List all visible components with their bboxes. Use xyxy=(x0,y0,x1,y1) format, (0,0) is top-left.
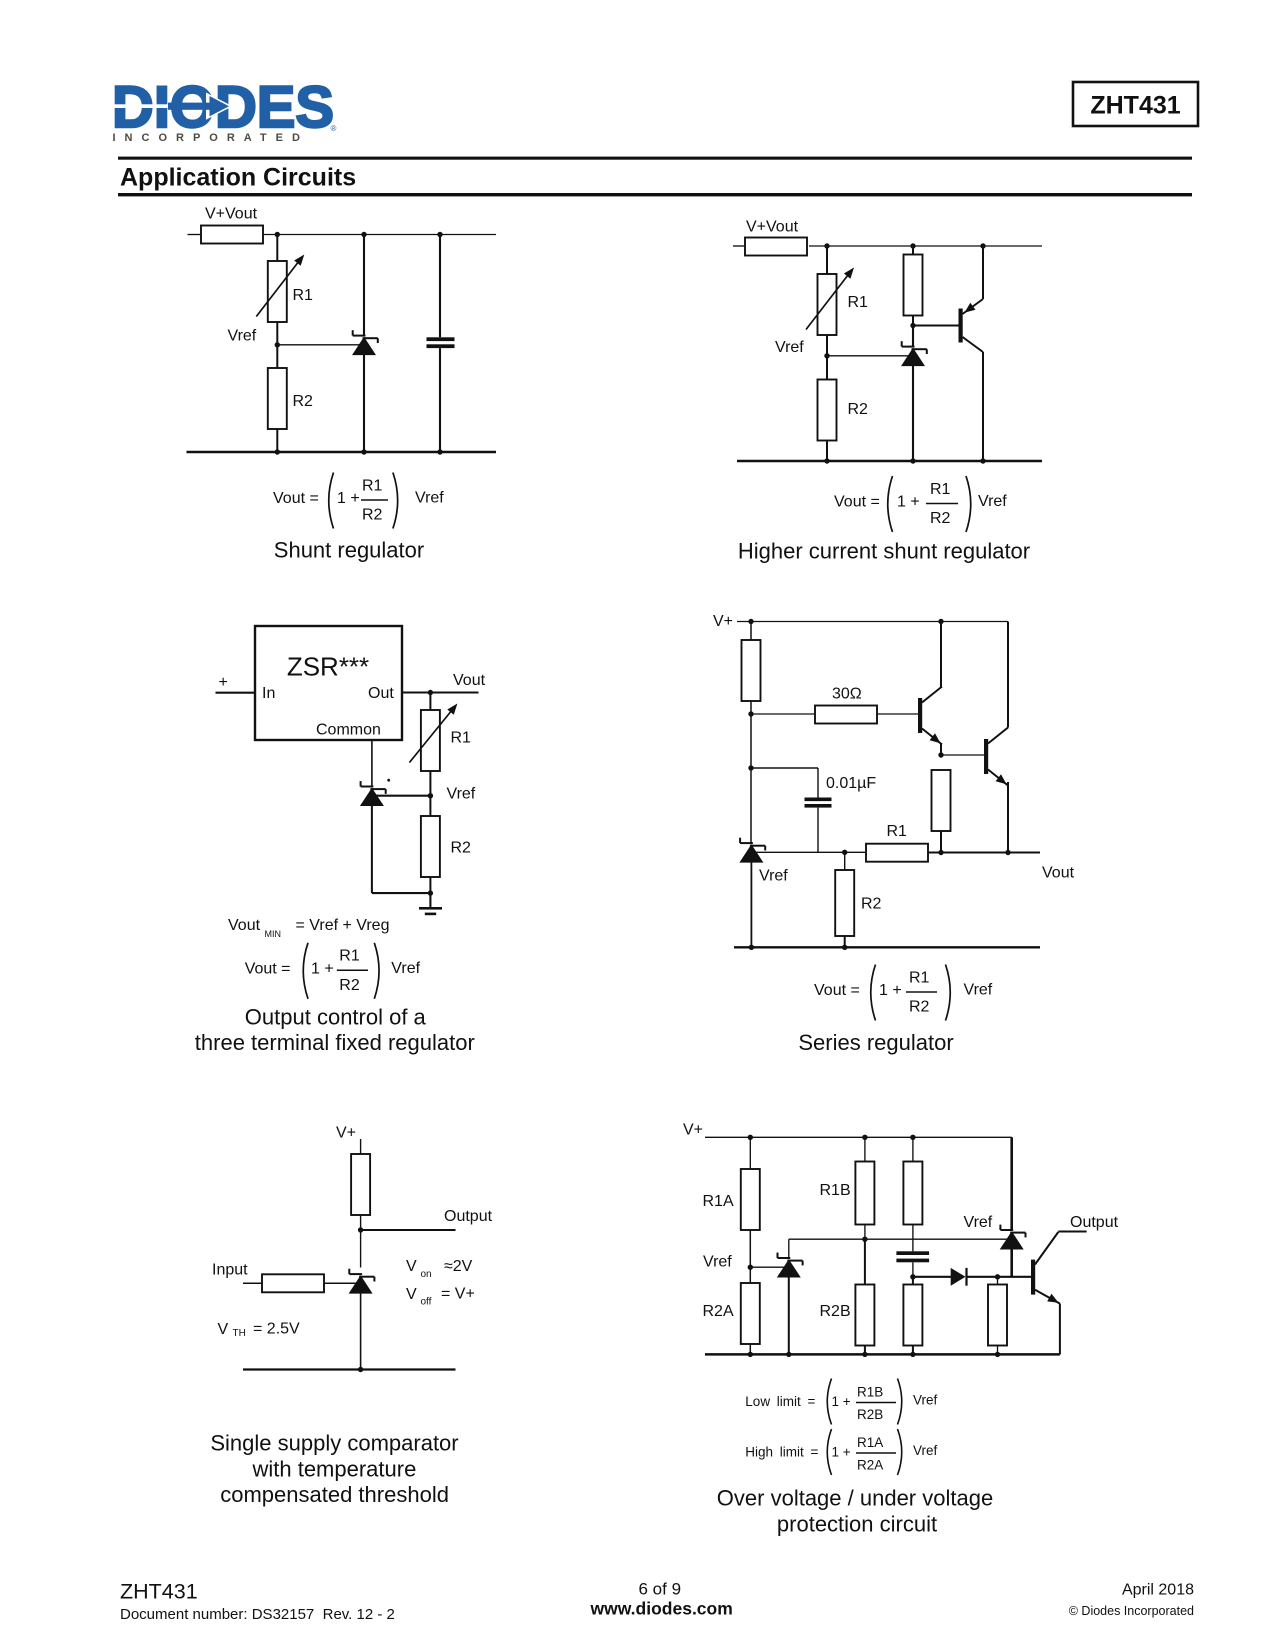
resistor R2 circuit 4 xyxy=(835,870,854,936)
svg-text:R2: R2 xyxy=(848,401,869,418)
wire: bottom rail circuit 2 xyxy=(737,460,1042,463)
wire: cap node to diode c6 xyxy=(913,1276,952,1278)
junction dot bottom U1 c1 xyxy=(361,449,366,454)
svg-text:≈2V: ≈2V xyxy=(444,1258,473,1275)
caption: Output control of a three terminal fixed regulator xyxy=(195,1005,475,1056)
svg-text:R1A: R1A xyxy=(703,1193,734,1210)
shunt reference U1 (ZHT431) circuit 1 xyxy=(352,235,378,453)
resistor R1 circuit 4 xyxy=(866,844,928,862)
shunt reference U6 (ZHT431) circuit 6 xyxy=(777,1239,803,1354)
junction dot Out node c3 xyxy=(428,690,433,695)
svg-text:R1B: R1B xyxy=(820,1182,851,1199)
junction dot top collector resistor c2 xyxy=(910,243,915,248)
svg-text:© Diodes Incorporated: © Diodes Incorporated xyxy=(1069,1604,1194,1618)
svg-text:Vout: Vout xyxy=(453,672,486,689)
shunt reference U7 (ZHT431) circuit 6 xyxy=(1000,1137,1026,1277)
wire: cap node to capacitor c4 xyxy=(751,768,818,798)
svg-text:= Vref + Vreg: = Vref + Vreg xyxy=(296,917,390,934)
svg-text:R1: R1 xyxy=(930,481,951,498)
svg-text:on: on xyxy=(421,1269,432,1280)
wire: reference pin to Vref node c3 xyxy=(376,795,430,797)
junction dot cap bottom node c6 xyxy=(910,1274,915,1279)
svg-text:30Ω: 30Ω xyxy=(832,686,862,703)
junction dot ground node c3 xyxy=(428,890,433,895)
svg-text:V: V xyxy=(406,1286,417,1303)
wire: top rail circuit 4 xyxy=(737,621,1008,623)
wire: R1 to Vout rail c4 xyxy=(928,852,1040,854)
wire: R2 to bottom rail c4 xyxy=(844,936,846,947)
transistor Q4 (NPN) circuit 6 xyxy=(1031,1232,1087,1355)
svg-text:V+: V+ xyxy=(713,613,733,630)
svg-text:R1A: R1A xyxy=(857,1435,883,1450)
wire: Q2 emitter to Q3 base c4 xyxy=(941,754,984,756)
resistor R2 circuit 2 xyxy=(818,380,837,441)
svg-text:Single supply comparator: Single supply comparator xyxy=(210,1431,458,1456)
junction dot bottom U2 c2 xyxy=(910,458,915,463)
wire: node to 30ohm resistor c4 xyxy=(751,713,815,715)
junction dot bottom Q1 collector c2 xyxy=(980,458,985,463)
svg-text:Vref: Vref xyxy=(228,328,257,345)
wire: R1 to R2 c3 xyxy=(429,771,431,816)
svg-text:Document number: DS32157 Rev.: Document number: DS32157 Rev. 12 - 2 xyxy=(120,1606,395,1623)
svg-text:R1: R1 xyxy=(887,823,908,840)
wire: output node to Output c5 xyxy=(361,1229,456,1231)
wire: bottom rail circuit 5 xyxy=(243,1368,456,1370)
pull-up resistor circuit 5 xyxy=(351,1154,370,1215)
svg-text:compensated threshold: compensated threshold xyxy=(220,1482,449,1507)
formula Vout=(1+R1/R2)Vref circuit 1 xyxy=(273,473,444,529)
svg-text:Vout: Vout xyxy=(228,917,261,934)
header rule upper xyxy=(118,157,1192,160)
wire: reference line to R1 c4 xyxy=(755,851,866,853)
svg-text:Vref: Vref xyxy=(415,490,444,507)
svg-text:ZHT431: ZHT431 xyxy=(1090,92,1180,120)
svg-text:R1: R1 xyxy=(848,294,869,311)
formula Vout=(1+R1/R2)Vref circuit 3 xyxy=(245,943,421,999)
formula high limit c6 xyxy=(745,1429,937,1475)
junction dot top of R1 c1 xyxy=(275,232,280,237)
input resistor (V+Vout series) circuit 2 xyxy=(733,238,807,256)
capacitor C3 circuit 6 xyxy=(896,1251,929,1277)
svg-text:High limit =: High limit = xyxy=(745,1445,818,1460)
label Von approx 2V c5 xyxy=(406,1258,473,1280)
svg-text:R1: R1 xyxy=(909,969,930,986)
svg-text:6 of 9: 6 of 9 xyxy=(639,1580,682,1599)
capacitor C1 circuit 1 xyxy=(427,235,455,453)
svg-text:R2: R2 xyxy=(930,510,951,527)
wire: Out pin to Vout c3 xyxy=(402,691,479,693)
junction dot bottom U4 c4 xyxy=(749,945,754,950)
svg-text:Vref: Vref xyxy=(964,982,993,999)
junction dot bottom C1 c1 xyxy=(437,449,442,454)
wire: 30ohm to Q2 base c4 xyxy=(877,713,918,715)
svg-text:MIN: MIN xyxy=(265,929,282,939)
svg-text:Vref: Vref xyxy=(978,493,1007,510)
wire: top rail circuit 1 xyxy=(263,234,496,236)
svg-text:1 +: 1 + xyxy=(879,982,902,999)
svg-text:1 +: 1 + xyxy=(897,494,920,511)
svg-text:1 +: 1 + xyxy=(337,490,360,507)
wire: R2 bottom to ground node c3 xyxy=(429,877,431,893)
svg-text:Low limit =: Low limit = xyxy=(745,1394,815,1409)
wire: resistor to output node c5 xyxy=(360,1215,362,1230)
label VTH = 2.5V c5 xyxy=(218,1321,301,1340)
svg-text:www.diodes.com: www.diodes.com xyxy=(590,1599,733,1619)
caption: Single supply comparator with temperature compensated threshold xyxy=(210,1431,458,1508)
svg-text:In: In xyxy=(262,685,275,702)
shunt reference U4 (ZHT431) circuit 4 xyxy=(739,838,765,948)
wire: Out node down to R1 c3 xyxy=(429,693,431,711)
svg-text:Out: Out xyxy=(368,685,394,702)
cathode resistor (base drive) circuit 2 xyxy=(904,246,923,326)
svg-text:R2: R2 xyxy=(362,507,383,524)
header rule lower xyxy=(118,193,1192,196)
delay resistor lower circuit 6 xyxy=(903,1277,922,1355)
junction dot cap node c4 xyxy=(748,765,753,770)
junction dot Vref node c1 xyxy=(275,342,280,347)
svg-text:R2: R2 xyxy=(861,896,882,913)
emitter resistor circuit 4 xyxy=(932,770,951,853)
junction dot Vref node c2 xyxy=(824,353,829,358)
wire: R2 to bottom rail c2 xyxy=(826,441,828,462)
resistor R2A circuit 6 xyxy=(741,1283,760,1354)
wire: input lead to In pin c3 xyxy=(216,692,256,694)
svg-text:Vout =: Vout = xyxy=(834,494,880,511)
svg-text:R1: R1 xyxy=(293,287,314,304)
junction dot bottom delay resistor c6 xyxy=(910,1352,915,1357)
svg-text:with temperature: with temperature xyxy=(251,1457,416,1482)
svg-text:V+: V+ xyxy=(683,1122,703,1139)
junction dot bottom pulldown resistor c6 xyxy=(995,1352,1000,1357)
junction dot R1B bottom node c6 xyxy=(862,1237,867,1242)
svg-text:R1B: R1B xyxy=(857,1385,883,1400)
formula Vout=(1+R1/R2)Vref circuit 2 xyxy=(834,476,1007,532)
svg-text:R2: R2 xyxy=(339,977,360,994)
wire: bottom rail circuit 6 xyxy=(705,1353,1060,1356)
stray dot artifact c3 xyxy=(387,779,390,782)
svg-text:Input: Input xyxy=(212,1262,248,1279)
svg-text:April 2018: April 2018 xyxy=(1122,1582,1194,1599)
resistor R1A circuit 6 xyxy=(741,1137,760,1283)
svg-text:1 +: 1 + xyxy=(832,1445,851,1460)
svg-text:V+Vout: V+Vout xyxy=(746,219,799,236)
junction dot emitter resistor bottom c4 xyxy=(938,850,943,855)
svg-text:ZHT431: ZHT431 xyxy=(120,1580,198,1604)
Diodes Incorporated logo xyxy=(106,75,337,144)
wire: base node to Q1 base c2 xyxy=(913,325,959,327)
formula low limit c6 xyxy=(745,1379,937,1425)
capacitor C2 circuit 4 xyxy=(805,798,832,853)
junction dot top R1A c6 xyxy=(748,1135,753,1140)
junction dot top emitter c2 xyxy=(980,243,985,248)
wire: top rail to R1 c1 xyxy=(276,235,278,262)
svg-text:Vref: Vref xyxy=(391,960,420,977)
svg-text:Vref: Vref xyxy=(964,1214,993,1231)
wire: U6 cathode bus to U7 reference c6 xyxy=(789,1238,1007,1240)
junction dot Vref node c6 xyxy=(748,1265,753,1270)
svg-text:= 2.5V: = 2.5V xyxy=(253,1321,300,1338)
junction dot bottom R2B c6 xyxy=(862,1352,867,1357)
svg-text:R1: R1 xyxy=(339,948,360,965)
svg-text:Vref: Vref xyxy=(913,1443,938,1458)
svg-text:1 +: 1 + xyxy=(832,1394,851,1409)
junction dot top delay resistor c6 xyxy=(910,1135,915,1140)
resistor R2B circuit 6 xyxy=(855,1239,874,1354)
svg-text:®: ® xyxy=(331,124,337,133)
junction dot 30ohm node c4 xyxy=(748,711,753,716)
junction dot bottom U5 c5 xyxy=(358,1367,363,1372)
svg-text:Vout =: Vout = xyxy=(273,490,319,507)
svg-text:Output control of a: Output control of a xyxy=(245,1005,427,1030)
wire: R1 to R2 c2 xyxy=(826,335,828,380)
wire: Vref node to U6 reference c6 xyxy=(750,1266,784,1268)
svg-text:R1: R1 xyxy=(451,730,472,747)
wire: output node down to U5 c5 xyxy=(360,1230,362,1268)
svg-text:Vref: Vref xyxy=(759,868,788,885)
ground symbol c3 xyxy=(419,893,442,915)
svg-text:Vout: Vout xyxy=(1042,865,1075,882)
svg-text:protection circuit: protection circuit xyxy=(777,1512,937,1537)
resistor R2 circuit 3 xyxy=(421,816,440,877)
wire: top rail circuit 6 xyxy=(705,1136,1012,1138)
svg-text:Over voltage / under voltage: Over voltage / under voltage xyxy=(717,1486,993,1511)
resistor R1 (variable) circuit 1 xyxy=(256,255,304,323)
supply resistor (cathode bias) circuit 4 xyxy=(742,622,761,715)
junction dot Vref node c3 xyxy=(428,793,433,798)
svg-text:R2: R2 xyxy=(293,393,314,410)
svg-text:Vout =: Vout = xyxy=(245,960,291,977)
resistor 30ohm circuit 4 xyxy=(815,706,877,724)
formula Vout=(1+R1/R2)Vref circuit 4 xyxy=(814,965,993,1021)
junction dot top of shunt reference c1 xyxy=(361,232,366,237)
transistor Q1 (PNP) circuit 2 xyxy=(959,246,984,461)
delay resistor upper circuit 6 xyxy=(903,1137,922,1251)
svg-text:Output: Output xyxy=(444,1208,493,1225)
svg-text:TH: TH xyxy=(233,1328,246,1339)
junction dot R2 node c4 xyxy=(842,850,847,855)
wire: left vertical to cap node c4 xyxy=(750,714,752,768)
svg-text:off: off xyxy=(421,1297,432,1308)
wire: resistor to reference pin c5 xyxy=(324,1282,357,1284)
part number box ZHT431 xyxy=(1073,82,1198,126)
wire: R2 node down c4 xyxy=(844,852,846,870)
wire: R1 to R2 c1 xyxy=(276,322,278,368)
resistor R2 circuit 1 xyxy=(268,368,287,429)
diode D1 circuit 6 xyxy=(951,1268,967,1286)
svg-text:R2B: R2B xyxy=(857,1407,883,1422)
junction dot top Q2 collector c4 xyxy=(938,619,943,624)
junction dot Q3 emitter node c4 xyxy=(1005,850,1010,855)
svg-text:V: V xyxy=(406,1258,417,1275)
label Voff = V+ c5 xyxy=(406,1286,475,1308)
svg-text:Vref: Vref xyxy=(913,1393,938,1408)
shunt reference U2 (ZHT431) circuit 2 xyxy=(901,326,927,462)
svg-text:V+: V+ xyxy=(336,1125,356,1142)
svg-text:R2: R2 xyxy=(909,999,930,1016)
svg-text:Shunt regulator: Shunt regulator xyxy=(274,538,424,563)
svg-text:Vref: Vref xyxy=(447,786,476,803)
junction dot top left resistor c4 xyxy=(748,619,753,624)
junction dot top of capacitor c1 xyxy=(437,232,442,237)
svg-text:R2A: R2A xyxy=(857,1458,883,1473)
junction dot base node c2 xyxy=(910,323,915,328)
junction dot bottom U6 c6 xyxy=(786,1352,791,1357)
wire: rail to R1 c2 xyxy=(826,246,828,274)
svg-text:= V+: = V+ xyxy=(441,1286,475,1303)
wire: V+ lead c5 xyxy=(360,1139,362,1154)
wire: Vref node to reference pin c1 xyxy=(277,344,360,346)
svg-text:+: + xyxy=(219,674,228,691)
caption: Over voltage / under voltage protection circuit xyxy=(717,1486,993,1537)
transistor Q2 (NPN) circuit 4 xyxy=(918,622,942,756)
junction dot bottom R2A c6 xyxy=(748,1352,753,1357)
resistor R1 (variable) circuit 3 xyxy=(409,704,457,772)
svg-text:ZSR***: ZSR*** xyxy=(287,652,369,682)
wire: Vref node to reference pin c2 xyxy=(827,355,909,357)
wire: bottom rail circuit 1 xyxy=(187,451,497,454)
svg-text:three terminal fixed regulator: three terminal fixed regulator xyxy=(195,1030,475,1055)
input resistor (V+Vout series) circuit 1 xyxy=(188,226,264,244)
svg-text:Vref: Vref xyxy=(703,1254,732,1271)
shunt reference U3 (ZHT431) circuit 3 xyxy=(360,781,386,893)
svg-text:Application Circuits: Application Circuits xyxy=(120,164,356,192)
wire: R2 to bottom rail c1 xyxy=(276,429,278,452)
junction dot bottom R2 c2 xyxy=(824,458,829,463)
transistor Q3 (NPN) circuit 4 xyxy=(984,622,1008,853)
svg-text:Higher current shunt regulator: Higher current shunt regulator xyxy=(738,539,1030,564)
junction dot pulldown resistor node c6 xyxy=(995,1274,1000,1279)
svg-text:Vref: Vref xyxy=(775,339,804,356)
junction dot top R1 c2 xyxy=(824,243,829,248)
input resistor circuit 5 xyxy=(262,1274,324,1292)
wire: cap node down to U4 c4 xyxy=(750,768,752,844)
svg-text:Series regulator: Series regulator xyxy=(798,1030,953,1055)
svg-text:R2: R2 xyxy=(451,840,472,857)
wire: U3 anode to ground node c3 xyxy=(372,892,431,894)
svg-text:R1: R1 xyxy=(362,477,383,494)
junction dot Q3 base node c4 xyxy=(938,752,943,757)
svg-text:0.01µF: 0.01µF xyxy=(826,775,876,792)
svg-text:V+Vout: V+Vout xyxy=(205,206,258,223)
svg-text:Common: Common xyxy=(316,722,381,739)
svg-text:R2B: R2B xyxy=(820,1303,851,1320)
svg-text:R2A: R2A xyxy=(703,1303,734,1320)
junction dot output node c5 xyxy=(358,1227,363,1232)
regulator block ZSR*** circuit 3 xyxy=(255,626,402,740)
wire: top rail circuit 2 xyxy=(809,245,1042,247)
junction dot top R1B c6 xyxy=(862,1135,867,1140)
resistor R1 (variable) circuit 2 xyxy=(806,268,854,336)
svg-text:Output: Output xyxy=(1070,1214,1119,1231)
wire: input lead c5 xyxy=(243,1282,262,1284)
svg-text:1 +: 1 + xyxy=(311,960,334,977)
pulldown resistor circuit 6 xyxy=(988,1277,1007,1355)
wire: Common down to reference U3 c3 xyxy=(371,740,373,787)
resistor R1B circuit 6 xyxy=(855,1137,874,1239)
wire: diode cathode to Q4 base c6 xyxy=(967,1276,1032,1278)
svg-text:INCORPORATED: INCORPORATED xyxy=(113,132,309,144)
junction dot bottom R2 c1 xyxy=(275,449,280,454)
svg-text:Vout =: Vout = xyxy=(814,982,860,999)
formula VoutMIN = Vref + Vreg c3 xyxy=(228,917,389,939)
shunt reference U5 (ZHT431) circuit 5 xyxy=(349,1269,375,1370)
wire: bottom rail circuit 4 xyxy=(734,946,1040,948)
svg-text:V: V xyxy=(218,1321,229,1338)
junction dot bottom R2 c4 xyxy=(842,945,847,950)
